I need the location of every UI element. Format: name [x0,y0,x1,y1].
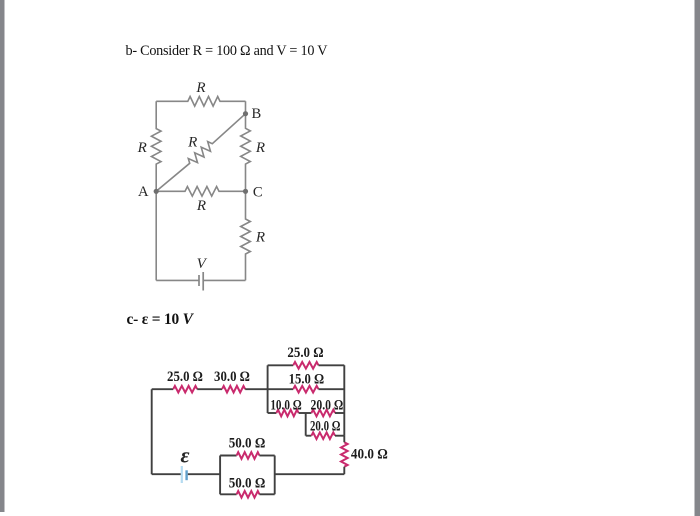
branch resistor 25.0 ohm (top of box) [268,364,294,366]
50/50 box left vertical [219,456,221,495]
diagonal resistor R (A to B) [156,114,245,192]
svg-text:R: R [255,230,265,246]
svg-text:B: B [252,106,262,122]
svg-text:R: R [255,140,265,156]
svg-text:R: R [137,140,147,156]
wire left vertical lower (A to bottom) [155,191,157,280]
svg-text:25.0 Ω: 25.0 Ω [167,369,203,385]
battery emf short plate [185,470,187,480]
wire battery to 50/50 box [188,473,220,475]
resistor 30.0 ohm (series) [222,386,245,393]
resistor 25.0 ohm (series) [173,386,197,393]
wire left vertical (circuit c) [151,389,153,474]
svg-text:30.0 Ω: 30.0 Ω [214,369,250,385]
resistor 40.0 ohm (right vertical) [341,442,348,466]
svg-text:50.0 Ω: 50.0 Ω [229,435,266,451]
node B [243,111,248,116]
svg-text:10.0 Ω: 10.0 Ω [270,397,301,413]
resistor 50.0 ohm (lower) [220,493,237,495]
battery V [198,275,200,286]
svg-text:c- ε = 10 V: c- ε = 10 V [127,311,195,328]
svg-text:A: A [138,184,149,200]
wire bottom left segment [156,279,199,281]
wire bottom right segment [203,279,245,281]
resistor 50.0 ohm (upper) [220,455,237,457]
svg-text:b- Consider R = 100 Ω and V =: b- Consider R = 100 Ω and V = 10 V [126,43,329,59]
wire bottom: left vertical to battery [152,473,181,475]
battery emf (blue) long plate [181,466,183,483]
svg-text:50.0 Ω: 50.0 Ω [229,475,266,491]
resistor 20.0 ohm (lower) [306,435,312,437]
svg-text:20.0 Ω: 20.0 Ω [311,397,344,413]
svg-text:25.0 Ω: 25.0 Ω [287,345,323,361]
right scrollbar edge [695,0,700,516]
svg-text:C: C [253,184,263,200]
lower 20.0 ohm loop vertical [305,413,307,436]
svg-text:R: R [195,80,205,96]
wire left with resistor R (left) [151,101,161,191]
node A [154,189,159,194]
svg-text:V: V [197,256,208,272]
wire main top with resistors 25.0 and 30.0 [152,388,174,390]
parallel box left vertical [267,365,269,413]
svg-text:ε: ε [180,443,189,468]
branch with 10.0 and 20.0 ohm [268,412,277,414]
wire top with resistor R (top) [156,97,245,107]
parallel box right vertical [343,365,345,435]
svg-text:R: R [187,134,197,150]
svg-text:R: R [196,198,206,214]
node C [243,189,248,194]
branch resistor 15.0 ohm (middle of box) [268,388,294,390]
svg-text:15.0 Ω: 15.0 Ω [289,371,325,387]
wire A to C with resistor R (middle horizontal) [156,187,245,197]
svg-text:20.0 Ω: 20.0 Ω [310,419,340,435]
50/50 box right vertical [274,456,276,495]
wire 50/50 box to 40 ohm [275,473,345,475]
left scrollbar edge [0,0,5,512]
wire right lower with resistor R (C down) [241,191,251,280]
wire right upper with resistor R (B to C) [241,101,251,191]
svg-text:40.0 Ω: 40.0 Ω [351,447,388,463]
